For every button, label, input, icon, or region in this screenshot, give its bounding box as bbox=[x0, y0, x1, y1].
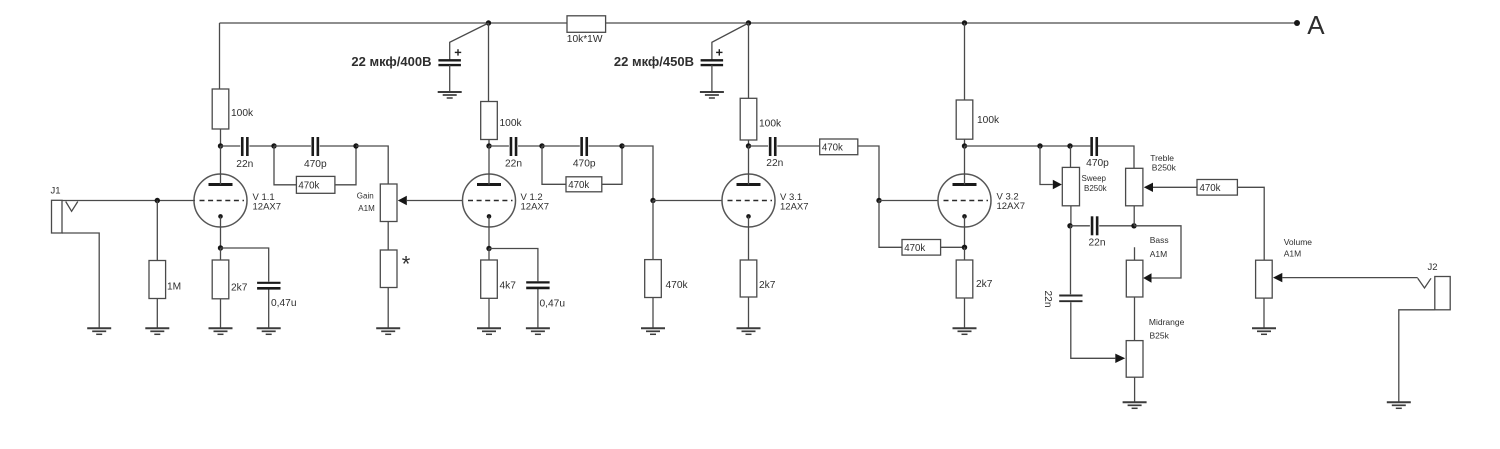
svg-text:12AX7: 12AX7 bbox=[997, 201, 1026, 212]
svg-text:470p: 470p bbox=[304, 159, 327, 170]
wire: Gain wiper to V1.2 grid bbox=[407, 200, 463, 202]
svg-text:J1: J1 bbox=[51, 186, 61, 197]
svg-text:2k7: 2k7 bbox=[976, 279, 993, 290]
node: sweep top junction bbox=[1067, 143, 1072, 148]
tube V1.1 triode bbox=[194, 146, 247, 227]
svg-text:100k: 100k bbox=[231, 108, 254, 119]
capacitor 22n tone horizontal bbox=[1070, 225, 1134, 227]
resistor 100k plate V3.1 bbox=[740, 98, 757, 140]
tube V1.2 triode bbox=[463, 146, 516, 227]
svg-text:470p: 470p bbox=[573, 159, 596, 170]
node: V1.2 plate junction bbox=[486, 143, 491, 148]
svg-text:22n: 22n bbox=[766, 158, 783, 169]
svg-text:2k7: 2k7 bbox=[231, 283, 248, 294]
wire: rail to R 100k of V3.1 bbox=[748, 23, 750, 146]
node: rail junction to V3.1 plate resistor and 450V cap bbox=[746, 20, 751, 25]
svg-text:100k: 100k bbox=[500, 118, 523, 129]
Volume wiper arrow bbox=[1273, 273, 1282, 282]
resistor 4k7 cathode V1.2 bbox=[488, 249, 490, 329]
svg-text:*: * bbox=[402, 252, 411, 277]
ground under 1M bbox=[145, 328, 169, 334]
wire: rail to R 100k of V1.2 bbox=[488, 23, 491, 146]
node: grid junction with 1M bbox=[155, 198, 160, 203]
svg-text:470k: 470k bbox=[1200, 183, 1221, 194]
ground under 2k7 V3.1 bbox=[737, 328, 761, 334]
svg-text:470k: 470k bbox=[298, 180, 319, 191]
capacitor 0,47u cathode bypass V1.1 bbox=[221, 248, 297, 328]
wire: grid junction to V3.2 grid bbox=[879, 200, 938, 202]
svg-text:Midrange: Midrange bbox=[1149, 317, 1185, 327]
input jack J1 bbox=[51, 186, 100, 329]
potentiometer Volume A1M body bbox=[1256, 260, 1273, 298]
resistor 470k parallel stage1 bbox=[274, 146, 356, 185]
svg-text:Bass: Bass bbox=[1150, 235, 1169, 245]
svg-text:A1M: A1M bbox=[358, 204, 375, 213]
resistor 470k parallel stage2 bbox=[542, 146, 622, 184]
capacitor 22 mkf/450V electrolytic bbox=[614, 23, 749, 92]
ground under Midrange bbox=[1123, 402, 1147, 408]
wire: 470k to Volume pot bbox=[1237, 187, 1264, 260]
svg-text:J2: J2 bbox=[1428, 262, 1438, 273]
svg-text:12AX7: 12AX7 bbox=[780, 202, 809, 213]
wire: V3.1 cathode lead bbox=[748, 216, 750, 260]
ground under 400V cap bbox=[438, 92, 462, 98]
svg-text:Sweep: Sweep bbox=[1082, 174, 1107, 183]
wire: V1.1 cathode lead bbox=[220, 216, 222, 248]
resistor 470k grid-to-cathode V3.2 bbox=[902, 240, 941, 256]
node: V1.1 plate junction bbox=[218, 143, 223, 148]
ground under 0,47u stage2 bbox=[526, 328, 550, 334]
ground under J1 sleeve bbox=[87, 328, 111, 334]
node: terminal A dot bbox=[1294, 20, 1300, 26]
wire: sweep wiper feed bbox=[1040, 146, 1053, 185]
svg-text:12AX7: 12AX7 bbox=[253, 202, 282, 213]
wire: rail to R 100k of V3.2 bbox=[964, 23, 966, 146]
node: junction 22n/470p/470k stage2 bbox=[539, 143, 544, 148]
wire: treble wiper to 470k bbox=[1153, 186, 1197, 188]
resistor 1M grid leak bbox=[156, 201, 158, 329]
capacitor 22n coupling stage3 bbox=[749, 145, 820, 147]
resistor 100k plate V1.2 bbox=[481, 102, 498, 140]
resistor 2k7 cathode V3.1 bbox=[740, 260, 757, 297]
svg-text:0,47u: 0,47u bbox=[540, 298, 566, 309]
svg-text:B250k: B250k bbox=[1152, 163, 1177, 173]
ground under 2k7 V3.2 bbox=[953, 328, 977, 334]
tube V3.1 triode bbox=[722, 146, 775, 227]
svg-text:470p: 470p bbox=[1086, 158, 1109, 169]
node: treble bottom junction bbox=[1131, 223, 1136, 228]
capacitor 22n coupling stage1 bbox=[221, 145, 275, 147]
svg-text:100k: 100k bbox=[759, 119, 782, 130]
svg-text:22n: 22n bbox=[1042, 291, 1053, 308]
wire: 470k to V3.2 grid junction bbox=[858, 146, 879, 201]
Sweep wiper arrow bbox=[1053, 180, 1062, 189]
Bass wiper arrow bbox=[1143, 273, 1151, 282]
Midrange wiper arrow bbox=[1115, 354, 1125, 363]
Treble wiper arrow bbox=[1144, 183, 1153, 192]
wire: grid junction to V3.1 grid bbox=[653, 200, 722, 202]
potentiometer Gain A1M body bbox=[380, 184, 397, 222]
wire: to Gain pot top bbox=[356, 146, 388, 184]
svg-text:2k7: 2k7 bbox=[759, 280, 776, 291]
svg-text:22n: 22n bbox=[505, 159, 522, 170]
potentiometer Midrange B25k body bbox=[1126, 341, 1143, 378]
svg-text:0,47u: 0,47u bbox=[271, 298, 297, 309]
potentiometer Bass A1M body bbox=[1134, 247, 1136, 340]
svg-text:470k: 470k bbox=[666, 280, 689, 291]
resistor 100k plate V1.1 bbox=[212, 89, 229, 129]
ground under J2 sleeve bbox=[1387, 402, 1411, 408]
node: junction 22n / 470p / 470k bbox=[271, 143, 276, 148]
svg-text:B250k: B250k bbox=[1084, 184, 1108, 193]
svg-text:12AX7: 12AX7 bbox=[521, 202, 550, 213]
svg-text:470k: 470k bbox=[568, 180, 589, 191]
wire: rail down to R 100k of V1.1 bbox=[220, 23, 221, 146]
wire: down to V3.1 grid junction bbox=[622, 146, 653, 201]
node: sweep wiper junction bbox=[1037, 143, 1042, 148]
svg-text:4k7: 4k7 bbox=[500, 281, 517, 292]
svg-text:B25k: B25k bbox=[1150, 330, 1170, 340]
potentiometer Treble B250k body bbox=[1133, 206, 1135, 226]
svg-text:22n: 22n bbox=[236, 159, 253, 170]
node: rail junction to V3.2 plate resistor bbox=[962, 20, 967, 25]
resistor 100k plate V3.2 bbox=[956, 100, 973, 139]
svg-text:100k: 100k bbox=[977, 115, 1000, 126]
node: V3.2 grid junction bbox=[876, 198, 881, 203]
resistor * below Gain pot bbox=[387, 222, 389, 329]
ground under Volume bbox=[1252, 328, 1276, 334]
node: junction to V3.1 grid line bbox=[619, 143, 624, 148]
svg-text:22 мкф/400В: 22 мкф/400В bbox=[351, 54, 431, 69]
svg-text:Treble: Treble bbox=[1150, 153, 1174, 163]
svg-text:22 мкф/450В: 22 мкф/450В bbox=[614, 54, 694, 69]
ground under 0,47u bbox=[257, 328, 281, 334]
capacitor 22n coupling stage2 bbox=[489, 145, 542, 147]
wire: V3.2 cathode lead bbox=[964, 216, 966, 247]
resistor 470k series coupling stage3 bbox=[820, 139, 858, 155]
capacitor 22 mkf/400V electrolytic bbox=[351, 23, 488, 92]
svg-text:10k*1W: 10k*1W bbox=[567, 34, 603, 45]
resistor 10k*1W on supply rail bbox=[567, 16, 606, 33]
wire: B+ supply rail bbox=[220, 22, 1298, 24]
capacitor 22n vertical to midrange bbox=[1042, 226, 1116, 358]
svg-text:A1M: A1M bbox=[1284, 249, 1301, 259]
node: V1.2 cathode junction bbox=[486, 246, 491, 251]
Gain wiper arrow bbox=[398, 196, 407, 205]
node: sweep bottom junction bbox=[1067, 223, 1072, 228]
capacitor 0,47u cathode bypass V1.2 bbox=[489, 249, 565, 329]
capacitor 470p coupling stage1 bbox=[274, 145, 356, 147]
node: V3.2 plate junction bbox=[962, 143, 967, 148]
svg-text:470k: 470k bbox=[822, 142, 843, 153]
node: V3.1 plate junction bbox=[746, 143, 751, 148]
node: junction to Gain pot bbox=[353, 143, 358, 148]
svg-text:22n: 22n bbox=[1089, 237, 1106, 248]
node: V1.1 cathode junction bbox=[218, 245, 223, 250]
node: V3.2 cathode junction bbox=[962, 245, 967, 250]
tube V3.2 triode bbox=[938, 146, 991, 227]
ground under 450V cap bbox=[700, 92, 724, 98]
node: rail junction to V1.2 plate resistor and 400V cap bbox=[486, 20, 491, 25]
ground under grid 470k bbox=[641, 328, 665, 334]
ground under 4k7 bbox=[477, 328, 501, 334]
resistor 470k V3.1 grid to ground bbox=[652, 201, 654, 329]
svg-text:470k: 470k bbox=[904, 243, 925, 254]
output jack J2 bbox=[1399, 262, 1450, 402]
wire: grid junction down to 470k bbox=[879, 201, 902, 248]
wire: V3.2 plate to tone stack bbox=[965, 146, 1135, 168]
wire: J1 tip to V1.1 grid bbox=[62, 200, 195, 202]
resistor 2k7 cathode V1.1 bbox=[220, 248, 222, 328]
potentiometer Sweep B250k body bbox=[1070, 146, 1072, 226]
svg-text:A: A bbox=[1307, 10, 1325, 40]
ground under * resistor bbox=[376, 328, 400, 334]
wire: bass wiper loop bbox=[1134, 226, 1181, 278]
ground under 2k7 bbox=[209, 328, 233, 334]
svg-text:Gain: Gain bbox=[357, 192, 374, 201]
wire: volume wiper to J2 bbox=[1282, 277, 1417, 279]
resistor 2k7 cathode V3.2 bbox=[964, 247, 966, 328]
capacitor 470p coupling stage2 bbox=[542, 145, 622, 147]
capacitor 470p tone bbox=[1092, 137, 1097, 156]
node: V3.1 grid junction bbox=[650, 198, 655, 203]
svg-text:1M: 1M bbox=[167, 282, 181, 293]
wire: V1.2 cathode lead bbox=[488, 216, 490, 248]
svg-text:A1M: A1M bbox=[1150, 249, 1167, 259]
svg-text:Volume: Volume bbox=[1284, 237, 1313, 247]
resistor 470k treble output bbox=[1197, 180, 1237, 196]
